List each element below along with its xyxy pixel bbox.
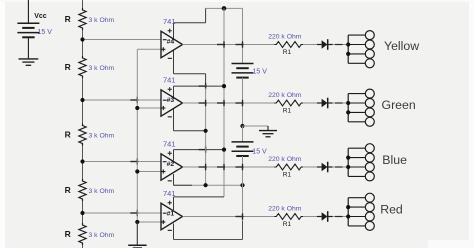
ground (bottom of non-inverting bus) [128, 245, 146, 248]
node connector Red row3 [346, 214, 350, 218]
wire (U4 V+ stub) [173, 23, 175, 39]
wire (U3 V- horizontal) [174, 130, 206, 132]
wire (battery column mid upper) [242, 78, 244, 126]
svg-text:3 k Ohm: 3 k Ohm [89, 132, 115, 139]
wire (R1 to diode Green) [303, 102, 317, 104]
svg-text:220 k Ohm: 220 k Ohm [268, 92, 302, 99]
svg-text:R1: R1 [283, 107, 292, 114]
wire (column A -15V vertical) [205, 88, 207, 185]
wire (ladder segment 4) [82, 201, 84, 223]
svg-text:3 k Ohm: 3 k Ohm [89, 188, 115, 195]
svg-text:741: 741 [163, 17, 176, 26]
junction tick (column A crosses U2 V+ wire) [199, 149, 207, 151]
wire (op-amp U2 non-inverting stub) [137, 171, 161, 173]
pin marker inverting input U4 [163, 39, 167, 41]
svg-text:15 V: 15 V [252, 148, 267, 155]
wire (ground tap horizontal) [243, 125, 269, 127]
diode D2 (Green row) [317, 98, 333, 109]
wire (ladder tap 3 to inverting input) [83, 161, 162, 163]
ground (battery midpoint) [259, 126, 277, 137]
node -15V line / battery column [240, 183, 244, 187]
wire (column A dark top) [205, 74, 207, 88]
node column A joins -15V line [204, 183, 208, 187]
connector J4 (Red indicator) [348, 193, 374, 230]
wire (R1 to diode Yellow) [303, 44, 317, 46]
wire (diode to connector Yellow) [333, 44, 349, 46]
svg-text:R: R [65, 185, 71, 195]
svg-text:R1: R1 [283, 49, 292, 56]
node connector Yellow row3 [346, 52, 350, 56]
wire (battery column top) [242, 8, 244, 63]
battery B1 (15 V) [232, 64, 254, 78]
wire (non-inverting bus dark lower end) [136, 222, 138, 245]
wire (output row Blue) [183, 166, 275, 168]
wire (ladder tap 2 to inverting input) [83, 99, 162, 101]
wire (diode to connector Green) [333, 102, 349, 104]
node column A / U3 V- [204, 129, 208, 133]
node column B / U2 V+ [222, 148, 226, 152]
wire (U3 V- stub) [173, 109, 175, 131]
connector J2 (Green indicator) [348, 89, 374, 126]
wire (ladder segment 3) [82, 146, 84, 180]
wire (top +15V rail) [206, 7, 243, 9]
node column B / U3 V+ [222, 84, 226, 88]
svg-text:#3: #3 [167, 97, 175, 104]
resistor R ladder2 (3 k Ohm) [79, 56, 86, 78]
svg-text:Yellow: Yellow [384, 39, 419, 53]
svg-text:Green: Green [382, 98, 416, 112]
wire (U4 V+ horizontal) [174, 22, 206, 24]
svg-text:#4: #4 [167, 38, 175, 45]
svg-text:R: R [65, 129, 71, 139]
wire (+15V column B) [223, 8, 225, 197]
pin marker inverting input U2 [163, 161, 167, 163]
white page margin bottom right [428, 240, 474, 248]
op-amp U3 (741 #3) [161, 76, 183, 117]
wire (diode to connector Red) [333, 216, 349, 218]
wire (op-amp U1 non-inverting stub) [137, 221, 161, 223]
svg-text:741: 741 [163, 140, 176, 149]
pin marker non-inverting input U3 [161, 107, 165, 109]
diode D4 (Red row) [317, 211, 333, 222]
wire (R1 to diode Red) [303, 216, 317, 218]
pin marker inverting input U1 [163, 212, 167, 214]
svg-text:Red: Red [380, 202, 403, 216]
junction tick (column A crosses U3 V+ wire) [199, 85, 207, 87]
wire (ladder tap 4 to inverting input) [83, 212, 162, 214]
wire (op-amp U4 non-inverting stub) [137, 48, 161, 50]
op-amp U1 (741 #1) [161, 189, 183, 230]
pin marker non-inverting input U4 [161, 48, 165, 50]
svg-text:R: R [65, 14, 71, 24]
wire (U2 V+ stub) [173, 150, 175, 161]
node ladder tap 4 [80, 211, 84, 215]
svg-text:15 V: 15 V [38, 29, 53, 36]
node connector Green row2 [346, 101, 350, 105]
wire (U4 V+ riser) [205, 8, 207, 22]
op-amp U2 (741 #2) [161, 140, 183, 181]
node connector Yellow row2 [346, 42, 350, 46]
pin marker non-inverting input U1 [161, 221, 165, 223]
resistor R1 (Red row, 220 k Ohm) [274, 214, 303, 220]
battery B2 (15 V) [232, 142, 254, 156]
node connector Green row3 [346, 110, 350, 114]
wire (output row Red) [183, 216, 275, 218]
wire (ladder segment bottom edge) [82, 245, 84, 248]
white page margin right [469, 0, 474, 248]
node connector Blue row3 [346, 165, 350, 169]
node connector Blue row2 [346, 156, 350, 160]
wire (ladder segment 1) [82, 30, 84, 56]
wire (U2 V- stub) [173, 174, 175, 185]
wire (U2 V+ horizontal) [174, 149, 225, 151]
wire (U3 V+ stub) [173, 86, 175, 98]
wire (V1 top lead) [27, 0, 29, 23]
connector J1 (Yellow indicator) [348, 31, 374, 68]
wire (battery column bottom / -15V feed) [242, 156, 244, 221]
wire (V1 bottom lead) [27, 37, 29, 58]
white page margin top [0, 0, 474, 2]
svg-text:#2: #2 [167, 161, 175, 168]
wire (output row Green) [183, 102, 275, 104]
svg-text:R: R [65, 62, 71, 72]
diode D1 (Yellow row) [317, 39, 333, 50]
resistor R ladder4 (3 k Ohm) [79, 179, 86, 201]
resistor R ladder1 (3 k Ohm) [79, 8, 86, 30]
svg-text:220 k Ohm: 220 k Ohm [268, 34, 302, 41]
resistor R1 (Yellow row, 220 k Ohm) [274, 42, 303, 48]
wire (ladder segment 2) [82, 78, 84, 124]
battery V1 (Vcc) [17, 23, 39, 37]
wire (ladder tap 1 to inverting input) [83, 39, 162, 41]
wire (non-inverting bus vertical) [136, 49, 138, 245]
wire (op-amp U3 non-inverting stub) [137, 107, 161, 109]
svg-text:741: 741 [163, 189, 176, 198]
svg-text:741: 741 [163, 76, 176, 85]
wire (U1 V- horizontal) [174, 239, 243, 241]
svg-text:15 V: 15 V [253, 68, 268, 75]
pin marker inverting input U3 [163, 99, 167, 101]
node bus tap U2 [135, 169, 139, 173]
diode D3 (Blue row) [317, 162, 333, 173]
wire (R1 to diode Blue) [303, 166, 317, 168]
ground (below V1) [19, 58, 39, 65]
wire (U1 V- stub) [173, 224, 175, 240]
node connector Red row2 [346, 205, 350, 209]
svg-text:3 k Ohm: 3 k Ohm [89, 17, 115, 24]
node battery midpoint [240, 124, 244, 128]
white page margin left [0, 0, 5, 248]
resistor R ladder5 (3 k Ohm) [79, 223, 86, 245]
node bus tap U3 [135, 106, 139, 110]
wire (U3 V+ horizontal) [174, 85, 225, 87]
svg-text:R: R [65, 229, 71, 239]
wire (diode to connector Blue) [333, 166, 349, 168]
wire (U2 V- horizontal) [174, 184, 243, 186]
wire (U4 V- horizontal) [174, 73, 206, 75]
node ladder tap 3 [80, 159, 84, 163]
svg-text:220 k Ohm: 220 k Ohm [268, 156, 302, 163]
node top rail junction [222, 6, 227, 11]
svg-text:3 k Ohm: 3 k Ohm [89, 65, 115, 72]
resistor R1 (Blue row, 220 k Ohm) [274, 164, 303, 170]
node ladder tap 1 [80, 37, 84, 41]
wire (output row Yellow) [183, 44, 275, 46]
op-amp U4 (741 #4) [161, 17, 183, 58]
svg-text:Vcc: Vcc [34, 13, 47, 20]
resistor R ladder3 (3 k Ohm) [79, 124, 86, 146]
svg-text:220 k Ohm: 220 k Ohm [268, 206, 302, 213]
wire (U4 V- stub) [173, 50, 175, 74]
wire (U1 V+ stub) [173, 197, 175, 210]
wire (U1 V+ horizontal) [174, 196, 225, 198]
node ladder tap 2 [80, 98, 84, 102]
svg-text:#1: #1 [167, 210, 175, 217]
svg-text:3 k Ohm: 3 k Ohm [89, 232, 115, 239]
wire (battery column mid lower) [242, 126, 244, 142]
connector J3 (Blue indicator) [348, 144, 374, 181]
node bus tap U1 [135, 220, 139, 224]
wire (ladder segment top edge) [82, 0, 84, 8]
svg-text:Blue: Blue [382, 153, 407, 167]
svg-text:R1: R1 [283, 171, 292, 178]
pin marker non-inverting input U2 [161, 171, 165, 173]
svg-text:R1: R1 [283, 221, 292, 228]
resistor R1 (Green row, 220 k Ohm) [274, 100, 303, 106]
